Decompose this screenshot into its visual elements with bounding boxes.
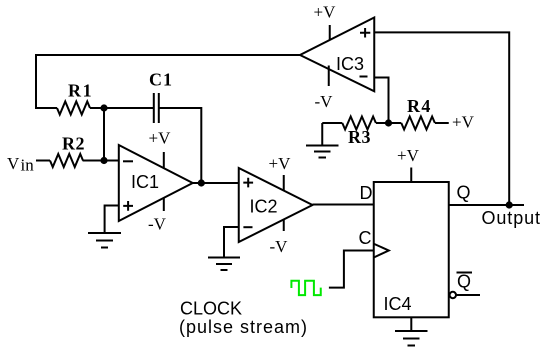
svg-text:R4: R4 <box>407 96 432 116</box>
svg-text:Q: Q <box>457 183 471 203</box>
svg-text:V: V <box>7 154 20 173</box>
svg-text:CLOCK: CLOCK <box>180 299 242 319</box>
svg-text:D: D <box>360 183 373 203</box>
svg-text:+V: +V <box>149 129 172 148</box>
svg-text:C: C <box>359 228 372 248</box>
svg-text:C1: C1 <box>149 70 173 90</box>
svg-text:-V: -V <box>270 237 289 256</box>
svg-text:in: in <box>21 156 35 175</box>
svg-text:IC2: IC2 <box>250 197 278 217</box>
svg-text:R2: R2 <box>62 133 85 153</box>
svg-text:R1: R1 <box>68 81 93 101</box>
svg-text:(pulse stream): (pulse stream) <box>179 317 308 337</box>
svg-text:-V: -V <box>315 92 334 111</box>
svg-text:+V: +V <box>314 3 337 22</box>
svg-text:IC1: IC1 <box>131 172 159 192</box>
svg-text:R3: R3 <box>348 127 371 147</box>
svg-text:IC3: IC3 <box>336 54 364 74</box>
svg-text:+V: +V <box>452 113 475 132</box>
svg-text:+V: +V <box>269 154 292 173</box>
svg-text:IC4: IC4 <box>384 294 412 314</box>
svg-text:+V: +V <box>397 146 420 165</box>
svg-text:-V: -V <box>148 215 167 234</box>
svg-text:Q: Q <box>457 272 471 292</box>
svg-text:Output: Output <box>482 208 541 228</box>
